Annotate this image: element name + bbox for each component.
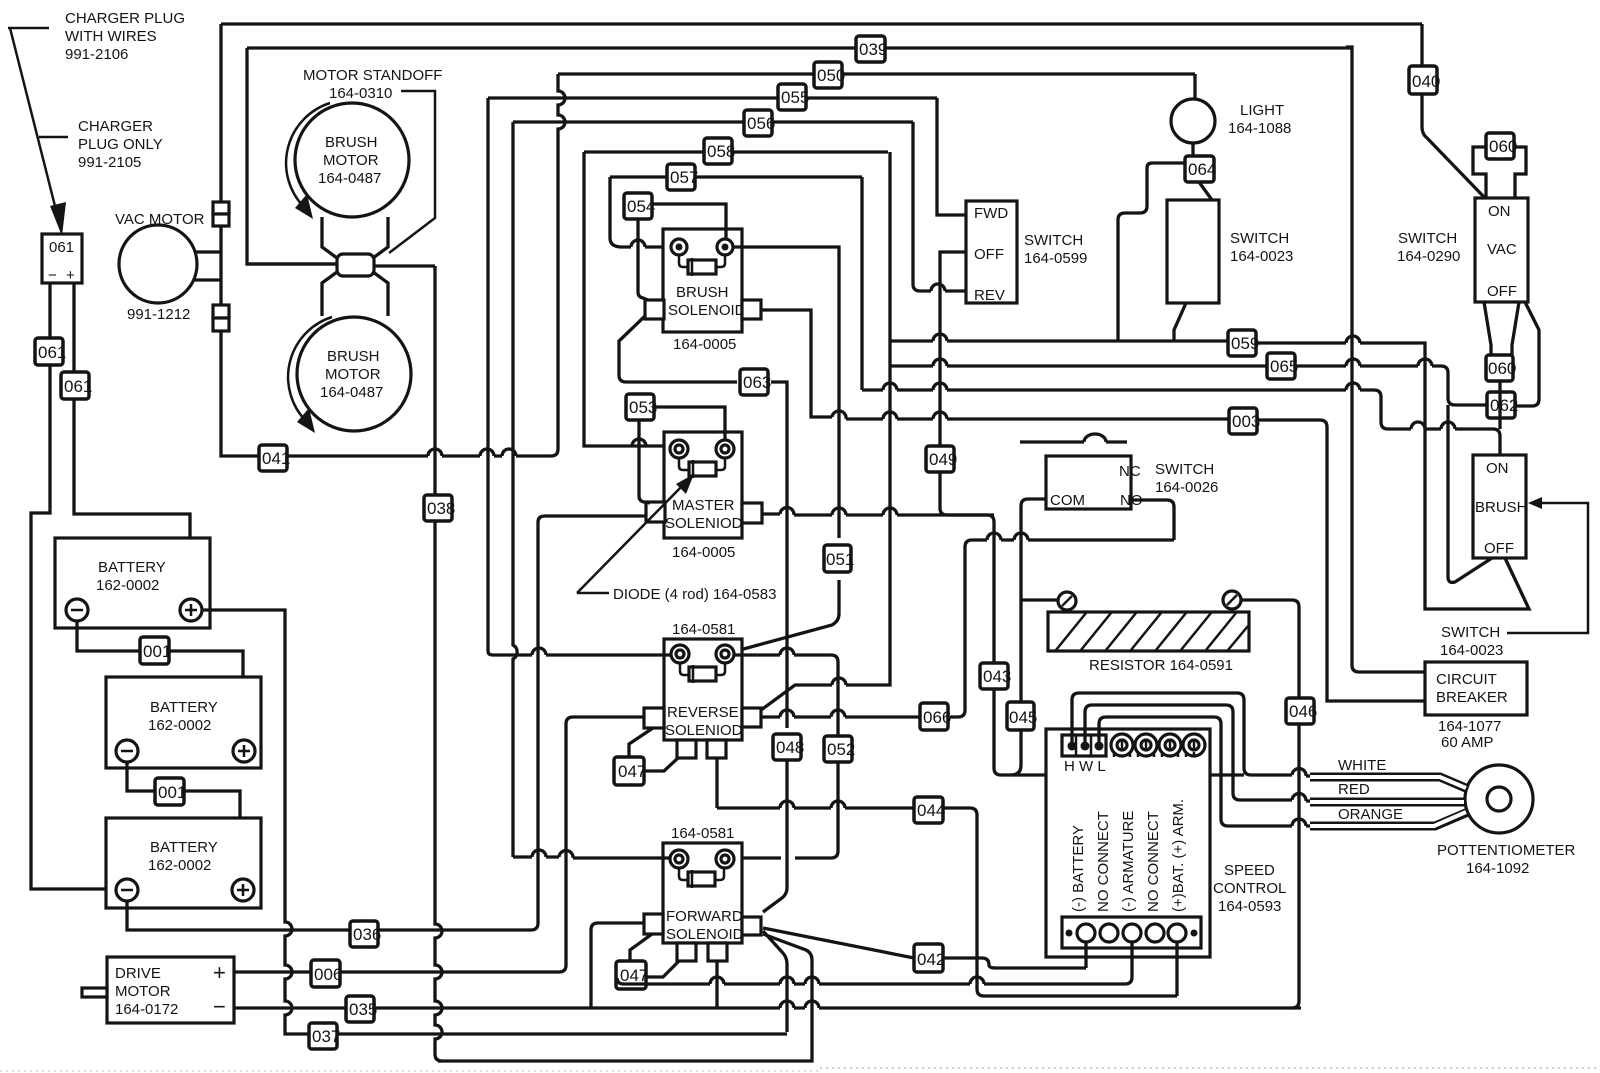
- wire forward bottom tab1 to 047: [646, 961, 679, 977]
- vac switch legs to 060 and 062: [1484, 302, 1539, 406]
- battery 3 minus terminal: [116, 879, 138, 901]
- wire bottom link 038 to forward tab riser: [438, 1055, 812, 1061]
- svg-text:001: 001: [158, 783, 186, 802]
- wire reverse right tab to 066 line: [761, 540, 1174, 717]
- svg-text:052: 052: [827, 740, 855, 759]
- wire label 038: [424, 495, 455, 521]
- svg-text:REVERSE: REVERSE: [667, 704, 739, 721]
- faint separator dots bottom: [820, 1067, 1600, 1069]
- brush motor 1 circle: [295, 103, 409, 217]
- wire label 003: [1229, 408, 1260, 434]
- wire battery3 minus down to 036 line: [127, 901, 538, 930]
- wire label 046: [1286, 698, 1317, 724]
- svg-text:066: 066: [923, 708, 951, 727]
- speed control HWL terminal block: [1062, 735, 1106, 756]
- wire charger plus down to battery 1: [74, 283, 190, 610]
- wire vac motor to connector 1 riser: [196, 24, 221, 305]
- wire top bus 2 (motor frame to circuit breaker drop): [247, 46, 1352, 49]
- svg-text:OFF: OFF: [1484, 540, 1514, 557]
- wire label 066: [920, 703, 951, 730]
- svg-text:164-0172: 164-0172: [115, 1001, 178, 1018]
- wire label 037: [309, 1023, 340, 1049]
- wire 053 right to master right terminal: [654, 407, 725, 440]
- svg-text:164-0487: 164-0487: [320, 384, 383, 401]
- svg-text:039: 039: [859, 40, 887, 59]
- master solenoid coil: [679, 458, 725, 470]
- svg-text:991-1212: 991-1212: [127, 306, 190, 323]
- svg-text:164-0026: 164-0026: [1155, 479, 1218, 496]
- svg-text:−: −: [213, 994, 226, 1019]
- svg-text:(-) BATTERY: (-) BATTERY: [1070, 825, 1087, 912]
- svg-text:CONTROL: CONTROL: [1213, 880, 1286, 897]
- wire forward left line from 056 riser: [513, 857, 670, 858]
- wire 064 to switch top: [1199, 182, 1212, 200]
- wire 064 left link down to 059 line: [1118, 163, 1186, 341]
- wire label 044: [914, 797, 945, 823]
- wire forward right tab fan to 037 link: [763, 931, 787, 1032]
- battery 3 box: [106, 818, 261, 908]
- svg-text:POTTENTIOMETER: POTTENTIOMETER: [1437, 842, 1576, 859]
- wire label 001 a: [140, 637, 171, 664]
- diode callout leader: [577, 480, 688, 593]
- wire 036 riser to master solenoid B- line: [538, 516, 646, 923]
- wire drive motor minus 035 line: [234, 1006, 1301, 1009]
- wire battery1 minus to battery2 plus with 001: [77, 621, 243, 751]
- svg-text:SOLENOID: SOLENOID: [668, 302, 746, 319]
- master solenoid box 164-0005: [664, 432, 742, 538]
- reverse solenoid left tab: [644, 708, 664, 728]
- brush switch callout leader and arrow: [1507, 503, 1588, 633]
- svg-text:043: 043: [983, 667, 1011, 686]
- wire 058 riser to master solenoid left terminal: [584, 152, 666, 446]
- battery 2 plus terminal: [233, 740, 255, 762]
- svg-text:164-0023: 164-0023: [1440, 642, 1503, 659]
- wire battery2 minus to battery3 plus with 001: [127, 762, 240, 890]
- wire label 042: [914, 944, 945, 972]
- wire reverse right terminal down through 052 to forward right terminal: [734, 655, 838, 858]
- svg-text:LIGHT: LIGHT: [1240, 102, 1284, 119]
- wire label 036: [350, 921, 381, 947]
- svg-text:SWITCH: SWITCH: [1230, 230, 1289, 247]
- wire label 047 a: [614, 757, 646, 785]
- wire resistor left screw link: [1021, 598, 1058, 601]
- svg-text:164-0593: 164-0593: [1218, 898, 1281, 915]
- battery 3 plus terminal: [232, 879, 254, 901]
- wire brush left tab fan to 063 line: [619, 316, 787, 728]
- svg-text:WHITE: WHITE: [1338, 757, 1386, 774]
- wire forward right tab fan to 042: [763, 928, 1086, 968]
- wire 041 line from connector 2: [221, 331, 530, 456]
- wire 058 line (master solenoid feed): [584, 150, 888, 153]
- svg-text:MOTOR: MOTOR: [325, 366, 381, 383]
- svg-text:042: 042: [917, 950, 945, 969]
- svg-text:054: 054: [627, 197, 655, 216]
- svg-text:BATTERY: BATTERY: [98, 559, 166, 576]
- svg-text:035: 035: [349, 1000, 377, 1019]
- light circle 164-1088: [1171, 99, 1215, 143]
- svg-text:CHARGER: CHARGER: [78, 118, 153, 135]
- battery 1 plus terminal: [180, 599, 202, 621]
- wire coupler to 038 drop: [247, 264, 435, 266]
- wire reverse left line from 055 riser: [488, 651, 671, 655]
- svg-text:064: 064: [1188, 160, 1216, 179]
- wire label 043: [980, 663, 1011, 689]
- brush solenoid right terminal: [717, 239, 733, 255]
- svg-text:SWITCH: SWITCH: [1024, 232, 1083, 249]
- vac switch plug shoulder: [1473, 147, 1526, 198]
- wire master right tab to H line junction: [762, 514, 994, 515]
- svg-text:164-0290: 164-0290: [1397, 248, 1460, 265]
- wire 050 drop to light: [1193, 74, 1196, 99]
- wire 054 box to right terminal: [652, 204, 726, 239]
- svg-text:164-0487: 164-0487: [318, 170, 381, 187]
- speed control bottom terminal strip: [1062, 917, 1201, 948]
- hop of 058 line over 053 drop: [632, 439, 646, 446]
- svg-text:OFF: OFF: [974, 246, 1004, 263]
- svg-text:162-0002: 162-0002: [148, 857, 211, 874]
- svg-text:003: 003: [1232, 412, 1260, 431]
- battery 1 box: [55, 538, 210, 628]
- circuit breaker box: [1425, 662, 1527, 715]
- svg-text:BRUSH: BRUSH: [327, 348, 380, 365]
- svg-text:164-0005: 164-0005: [673, 336, 736, 353]
- wire 059 line: [890, 341, 1529, 609]
- forward solenoid bottom tab 1: [677, 943, 696, 961]
- wire speed control pin1 drop: [1084, 942, 1087, 968]
- wire switch bottom to 059 line: [1174, 303, 1186, 341]
- svg-text:SWITCH: SWITCH: [1155, 461, 1214, 478]
- wire 057 line (brush solenoid feed): [610, 175, 862, 178]
- wire orange to pot: [1310, 812, 1468, 826]
- wire 053 bottom to master left tab: [639, 420, 650, 503]
- svg-text:SOLENOID: SOLENOID: [666, 926, 744, 943]
- wire label 062: [1487, 392, 1518, 418]
- svg-text:059: 059: [1231, 334, 1259, 353]
- svg-text:COM: COM: [1050, 492, 1085, 509]
- wire 055 drop to FWD: [937, 98, 966, 215]
- wire 040 drop from top bus: [1422, 24, 1485, 198]
- master solenoid right tab: [742, 503, 762, 523]
- wire label 064: [1185, 156, 1216, 182]
- wire top bus 1 (vac motor to 040): [221, 22, 1422, 25]
- svg-text:RED: RED: [1338, 781, 1370, 798]
- svg-text:038: 038: [427, 499, 455, 518]
- svg-text:061: 061: [64, 377, 92, 396]
- wire speed control pin3 drop and armature line: [617, 942, 1132, 984]
- forward solenoid coil: [679, 868, 724, 880]
- master solenoid left terminal: [670, 440, 688, 458]
- wire label 052: [824, 736, 855, 762]
- svg-text:VAC MOTOR: VAC MOTOR: [115, 211, 205, 228]
- wire forward right tab fan to 038 link: [763, 934, 812, 1055]
- wire label 057: [667, 164, 698, 190]
- svg-text:FWD: FWD: [974, 205, 1008, 222]
- drive motor box 164-0172: [107, 957, 234, 1023]
- charger plug arrow: [8, 28, 68, 218]
- reverse solenoid left terminal: [671, 645, 689, 663]
- wire label 061 box a: [35, 338, 66, 365]
- motor 1 neck to coupler: [322, 217, 388, 258]
- battery 2 minus terminal: [116, 740, 138, 762]
- reverse solenoid coil: [680, 663, 725, 675]
- svg-text:062: 062: [1490, 396, 1518, 415]
- svg-text:061: 061: [38, 343, 66, 362]
- svg-text:RESISTOR 164-0591: RESISTOR 164-0591: [1089, 657, 1233, 674]
- wire NO to 066 net: [1131, 500, 1174, 540]
- svg-text:051: 051: [826, 550, 854, 569]
- wire red to pot: [1310, 798, 1466, 807]
- svg-text:050: 050: [817, 66, 845, 85]
- svg-text:063: 063: [743, 373, 771, 392]
- svg-text:(-) ARMATURE: (-) ARMATURE: [1120, 811, 1137, 912]
- svg-text:BATTERY: BATTERY: [150, 699, 218, 716]
- speed control trim pots: [1111, 734, 1205, 757]
- wire 055 riser to reverse solenoid left line: [486, 98, 489, 651]
- wire white to pot: [1310, 777, 1468, 789]
- forward solenoid bottom tab 2: [708, 943, 727, 961]
- switch 164-0599 box: [966, 201, 1017, 303]
- svg-text:060: 060: [1488, 359, 1516, 378]
- svg-text:SWITCH: SWITCH: [1441, 624, 1500, 641]
- svg-text:OFF: OFF: [1487, 283, 1517, 300]
- svg-text:162-0002: 162-0002: [148, 717, 211, 734]
- svg-text:164-0581: 164-0581: [671, 825, 734, 842]
- wire 060b to ON line: [1498, 381, 1501, 429]
- wire 056 drop to REV: [913, 122, 966, 291]
- forward solenoid left tab: [644, 914, 663, 934]
- svg-text:SOLENIOD: SOLENIOD: [665, 515, 743, 532]
- wire label 049: [926, 446, 957, 472]
- svg-text:MOTOR: MOTOR: [323, 152, 379, 169]
- brush solenoid left tab: [645, 300, 664, 319]
- svg-text:164-0599: 164-0599: [1024, 250, 1087, 267]
- wire light to 064: [1191, 143, 1194, 157]
- brush motor 1 rotation arrow: [286, 103, 330, 206]
- wire OFF to 049 drop: [940, 252, 987, 515]
- wire W riser: [1085, 705, 1420, 801]
- forward solenoid left terminal: [670, 850, 688, 868]
- wire 065 line: [890, 366, 1488, 405]
- svg-text:MOTOR: MOTOR: [115, 983, 171, 1000]
- wire label 045: [1007, 702, 1037, 730]
- wire 038 drop from coupler to bottom bus: [435, 266, 442, 1061]
- speed control box 164-0593: [1046, 729, 1210, 957]
- wire 055 line (reverse solenoid feed): [488, 96, 937, 99]
- wire label 058: [704, 138, 735, 164]
- wire 062 left link riser: [1448, 405, 1492, 582]
- switch 164-0026 box: [1046, 456, 1131, 509]
- wire forward left tab diagonal to 047: [630, 934, 652, 961]
- svg-text:BRUSH: BRUSH: [1475, 499, 1528, 516]
- wire label 063: [740, 369, 771, 395]
- vac switch body 164-0290: [1475, 198, 1528, 302]
- svg-text:049: 049: [929, 450, 957, 469]
- svg-text:037: 037: [312, 1027, 340, 1046]
- svg-text:+: +: [66, 267, 75, 284]
- svg-text:044: 044: [917, 801, 945, 820]
- svg-text:162-0002: 162-0002: [96, 577, 159, 594]
- svg-text:ON: ON: [1488, 203, 1511, 220]
- wire label 001 b: [155, 778, 186, 805]
- brush switch 164-0023 box: [1473, 455, 1526, 558]
- svg-text:041: 041: [262, 449, 290, 468]
- wire reverse bottom tab1 to 047: [644, 758, 678, 771]
- svg-text:NO CONNECT: NO CONNECT: [1095, 811, 1112, 912]
- master solenoid left tab: [646, 502, 665, 522]
- svg-text:053: 053: [629, 398, 657, 417]
- wire 063 drop to forward tab: [763, 760, 787, 912]
- svg-text:60 AMP: 60 AMP: [1441, 734, 1494, 751]
- svg-text:006: 006: [314, 965, 342, 984]
- svg-text:FORWARD: FORWARD: [666, 908, 743, 925]
- switch 164-0023 upper box: [1167, 200, 1219, 303]
- wire battery1 plus to 037 drop: [202, 610, 302, 1034]
- forward solenoid right tab: [742, 917, 761, 935]
- wire 050 line (041 riser to light drop): [558, 72, 1195, 75]
- wire label 047 b: [616, 961, 648, 989]
- wire COM to resistor left and 045: [1011, 499, 1046, 775]
- svg-text:164-1077: 164-1077: [1438, 718, 1501, 735]
- svg-text:164-0023: 164-0023: [1230, 248, 1293, 265]
- resistor 164-0591: [1058, 592, 1076, 610]
- wire label 059: [1228, 330, 1259, 356]
- svg-text:PLUG ONLY: PLUG ONLY: [78, 136, 163, 153]
- wire charger minus down left side: [31, 283, 113, 889]
- svg-text:055: 055: [781, 88, 809, 107]
- forward solenoid right terminal: [716, 850, 734, 868]
- wire forward left tab line to 035 drop: [591, 923, 644, 1008]
- brush solenoid left terminal: [671, 239, 687, 255]
- wire 054 bottom to left tab: [638, 219, 648, 300]
- wire 049 corner down to H line: [987, 515, 1244, 775]
- svg-text:036: 036: [353, 925, 381, 944]
- svg-text:991-2105: 991-2105: [78, 154, 141, 171]
- connector 1: [213, 202, 229, 214]
- svg-text:058: 058: [707, 142, 735, 161]
- wire 056 line (forward solenoid feed): [513, 120, 913, 123]
- wire 037 line: [302, 1032, 787, 1035]
- wire label 041: [259, 445, 290, 471]
- battery 1 minus terminal: [66, 599, 88, 621]
- wire label 056: [744, 110, 775, 136]
- svg-text:991-2106: 991-2106: [65, 46, 128, 63]
- brush motor 2 circle: [297, 317, 411, 431]
- wire L riser: [1099, 717, 1390, 826]
- connector 2: [213, 305, 229, 318]
- brush solenoid box 164-0005: [663, 229, 742, 332]
- svg-text:061: 061: [49, 239, 74, 256]
- svg-text:001: 001: [143, 642, 171, 661]
- wire label 006: [311, 960, 342, 987]
- wire brush right tab to 003 line: [761, 310, 1425, 701]
- brush motor 2 rotation arrow: [288, 317, 332, 420]
- wire forward bottom tab2 to 035 line: [715, 961, 718, 1008]
- svg-text:BRUSH: BRUSH: [325, 134, 378, 151]
- wire label 040: [1409, 66, 1440, 94]
- svg-text:164-1092: 164-1092: [1466, 860, 1529, 877]
- wire label 055: [778, 84, 809, 110]
- wire brush right terminal to 051 drop: [725, 247, 839, 654]
- reverse solenoid bottom tab 1: [677, 740, 696, 758]
- svg-text:SPEED: SPEED: [1224, 862, 1275, 879]
- svg-text:MOTOR STANDOFF: MOTOR STANDOFF: [303, 67, 442, 84]
- wire label 048 on 063 drop: [773, 734, 804, 760]
- wire reverse left tab diagonal to 047: [629, 728, 653, 757]
- svg-text:056: 056: [747, 114, 775, 133]
- wire label 051: [824, 545, 854, 572]
- wire riser x558 joining 041 line to top, hops over 055/056: [530, 74, 565, 456]
- svg-text:048: 048: [776, 738, 804, 757]
- svg-text:164-0005: 164-0005: [672, 544, 735, 561]
- svg-text:040: 040: [1412, 72, 1440, 91]
- wire reverse left tab to 006 riser: [566, 717, 644, 724]
- svg-text:164-0581: 164-0581: [672, 621, 735, 638]
- svg-text:WITH WIRES: WITH WIRES: [65, 28, 157, 45]
- svg-text:BATTERY: BATTERY: [150, 839, 218, 856]
- reverse solenoid right terminal: [716, 645, 734, 663]
- wire label 065: [1267, 353, 1298, 379]
- wire 056 riser to forward solenoid left line: [511, 122, 514, 452]
- svg-text:CHARGER PLUG: CHARGER PLUG: [65, 10, 185, 27]
- svg-text:(+)BAT. (+) ARM.: (+)BAT. (+) ARM.: [1170, 799, 1187, 912]
- svg-text:SOLENIOD: SOLENIOD: [665, 722, 743, 739]
- svg-text:−: −: [48, 267, 57, 284]
- wire H riser: [1072, 693, 1385, 776]
- svg-text:ORANGE: ORANGE: [1338, 806, 1403, 823]
- svg-text:164-0310: 164-0310: [329, 85, 392, 102]
- wire resistor right to 046 drop: [1241, 600, 1299, 1008]
- svg-text:BRUSH: BRUSH: [676, 284, 729, 301]
- drive motor shaft: [82, 988, 107, 997]
- brush solenoid right tab: [742, 300, 761, 319]
- potentiometer 164-1092: [1465, 765, 1533, 833]
- svg-text:SWITCH: SWITCH: [1398, 230, 1457, 247]
- svg-text:NO CONNECT: NO CONNECT: [1145, 811, 1162, 912]
- switch 164-0026 lever: [1020, 440, 1127, 443]
- motor 2 neck: [322, 272, 388, 316]
- svg-text:164-1088: 164-1088: [1228, 120, 1291, 137]
- wire vac motor lower lead: [194, 278, 221, 281]
- hops of 059 065 003 lines over circuit breaker riser: [1346, 47, 1425, 672]
- svg-text:+: +: [213, 960, 226, 985]
- wire label 060 b: [1486, 355, 1516, 381]
- svg-text:BREAKER: BREAKER: [1436, 689, 1508, 706]
- svg-text:DIODE (4 rod) 164-0583: DIODE (4 rod) 164-0583: [613, 586, 776, 603]
- wire label 035: [346, 996, 377, 1022]
- wire label 053: [626, 394, 657, 420]
- master solenoid right terminal: [716, 440, 734, 458]
- battery 2 box: [106, 677, 261, 768]
- svg-text:045: 045: [1009, 708, 1037, 727]
- wire reverse bottom tab2 to 044 line: [717, 758, 1177, 996]
- vac switch plug top 060: [1486, 133, 1517, 159]
- svg-text:ON: ON: [1486, 460, 1509, 477]
- wire 057 riser to brush solenoid left terminal: [610, 177, 672, 247]
- svg-text:CIRCUIT: CIRCUIT: [1436, 671, 1497, 688]
- wire 057 net to brush switch ON: [862, 177, 1500, 455]
- svg-text:057: 057: [670, 168, 698, 187]
- svg-text:065: 065: [1270, 357, 1298, 376]
- svg-text:047: 047: [618, 762, 646, 781]
- svg-text:046: 046: [1289, 702, 1317, 721]
- svg-text:H W L: H W L: [1064, 758, 1106, 775]
- wire label 054: [624, 193, 655, 219]
- wire label 050: [814, 62, 845, 88]
- reverse solenoid right tab: [742, 708, 761, 727]
- reverse solenoid bottom tab 2: [707, 740, 726, 758]
- svg-text:REV: REV: [974, 287, 1005, 304]
- coupler 164-0310: [337, 254, 374, 276]
